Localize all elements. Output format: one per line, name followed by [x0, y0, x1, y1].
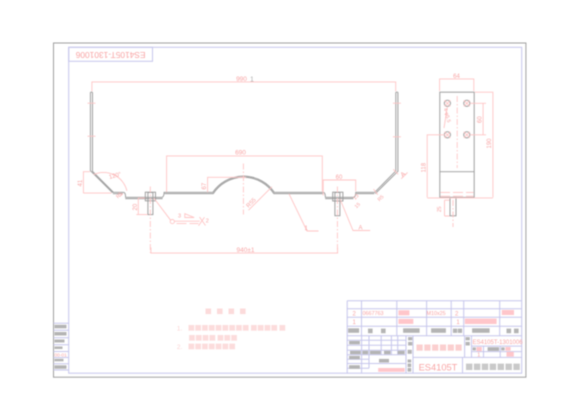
dimension 690: [167, 156, 323, 192]
dimension 60 holes: [470, 103, 486, 135]
side plate mid line: [440, 171, 474, 173]
header label beizhu: [507, 329, 519, 334]
stage mark row: [472, 346, 522, 357]
svg-text:118: 118: [422, 162, 428, 172]
hole bottom-left: [444, 132, 450, 138]
header gray block col5: [431, 328, 446, 333]
mark column small blocks: [408, 337, 413, 372]
header label dai hao: [368, 329, 386, 334]
vertical small text col bottom: [408, 360, 412, 363]
left bend radius tick: [120, 194, 124, 197]
dimension 120 degree arc: [94, 172, 127, 191]
signature column blocks: [349, 341, 360, 369]
svg-text:M10x25: M10x25: [427, 311, 446, 317]
hole top-right: [464, 100, 470, 106]
part outline upper line: [90, 92, 395, 197]
header gray block col1: [348, 328, 359, 333]
dimension 990 top: [92, 82, 396, 91]
hole bottom-left cross: [444, 132, 450, 138]
R55 leader: [249, 187, 272, 210]
dimension 940 bottom: [151, 248, 338, 254]
header gray block col7: [472, 328, 490, 333]
svg-text:60: 60: [478, 116, 484, 123]
side plate: [440, 92, 474, 197]
dimension 64 top: [440, 79, 474, 91]
name cell divider: [465, 336, 472, 358]
svg-text:67: 67: [202, 182, 208, 189]
small col blocks: [466, 337, 470, 345]
left margin table: [54, 323, 69, 370]
scale pink text: [505, 347, 510, 351]
title block upper table grid: [347, 301, 522, 373]
left stud shank: [148, 193, 153, 215]
svg-text:ES4105T-1301006: ES4105T-1301006: [473, 340, 524, 346]
svg-text:690: 690: [235, 150, 246, 157]
svg-text:3: 3: [178, 213, 181, 219]
header gray block col4: [403, 328, 420, 333]
dimension 41 left: [83, 172, 111, 193]
part outline lower line: [93, 92, 398, 194]
row3 pink block: [398, 319, 413, 324]
right upper bend label underline: [401, 172, 407, 178]
hole bottom-right cross: [464, 132, 470, 138]
weld circle: [170, 220, 174, 224]
side hidden line lower: [441, 195, 474, 197]
row2 pink block: [398, 310, 409, 315]
right upper bend tick: [393, 169, 398, 174]
weld tail slash: [199, 217, 206, 226]
revision row gray blocks: [350, 351, 405, 354]
left leg top cap: [90, 91, 92, 93]
bottom extension line: [427, 197, 493, 199]
side hidden line upper: [441, 191, 474, 193]
svg-text:2: 2: [206, 218, 209, 224]
center gray block: [379, 359, 389, 363]
hole top-right cross: [464, 100, 470, 106]
svg-text:940±1: 940±1: [236, 247, 254, 254]
right stud head: [333, 192, 343, 201]
svg-text:00-01: 00-01: [55, 352, 68, 358]
outer frame: [54, 43, 526, 377]
side stud: [450, 197, 456, 215]
notes title (CJK blocks): [206, 309, 246, 315]
right lower bend tick: [374, 189, 378, 195]
company name (CJK blocks): [466, 364, 520, 370]
svg-text:25: 25: [437, 206, 443, 212]
note line 2: [189, 335, 237, 341]
right leg top cap: [396, 91, 398, 93]
centerline left stud: [149, 187, 151, 253]
weld reference line: [174, 220, 199, 222]
right leg hole tick upper: [393, 102, 401, 104]
dimension 20 left stud: [136, 198, 147, 215]
stage pink block: [477, 347, 482, 351]
stage mark cells content: [473, 347, 505, 351]
svg-text:190: 190: [487, 138, 493, 149]
note line 1: [177, 325, 285, 333]
channel floor lower lines: [125, 198, 353, 200]
hole top-left: [444, 100, 450, 106]
side stud centerline: [452, 200, 454, 227]
leader 1: [289, 194, 319, 231]
svg-text:990: 990: [236, 76, 247, 83]
note line 3: [177, 344, 235, 352]
side stud dim: [445, 200, 450, 216]
number underline: [472, 345, 522, 347]
svg-text:ES4105T: ES4105T: [419, 362, 458, 372]
svg-text:20: 20: [133, 203, 139, 210]
svg-text:2.: 2.: [177, 344, 183, 351]
part name cell (CJK blocks): [417, 345, 462, 351]
svg-text:1.: 1.: [177, 326, 183, 333]
svg-text:A: A: [359, 226, 363, 232]
dimension 60 right stud: [323, 180, 356, 196]
stage value pink block: [507, 352, 514, 357]
centerline right stud: [336, 187, 338, 253]
svg-text:ES4105T-1301006: ES4105T-1301006: [75, 50, 145, 60]
left stud head: [145, 192, 155, 201]
left leg hole tick upper: [88, 102, 96, 104]
svg-text:64: 64: [453, 74, 460, 80]
row2 right pink block: [502, 310, 514, 315]
svg-text:60: 60: [336, 175, 343, 181]
dimension 118: [427, 135, 445, 198]
header label shuliang: [453, 329, 462, 333]
side vertical centerline: [456, 96, 458, 168]
weld fillet triangle: [185, 214, 194, 218]
dimension 67 hump: [208, 177, 246, 192]
bottom row divider: [413, 357, 522, 373]
svg-text:1: 1: [250, 77, 254, 84]
hole bottom-right: [464, 132, 470, 138]
dimension 190: [475, 92, 493, 197]
part number label box top-left: [69, 47, 153, 61]
hole top-left cross: [444, 100, 450, 106]
row3 right pink block: [465, 319, 497, 324]
inner frame: [69, 47, 522, 373]
holes callout leader: [444, 107, 447, 129]
left leg hole tick lower: [88, 135, 96, 137]
right stud shank: [335, 193, 340, 216]
lower-left revision grid: [347, 336, 413, 374]
margin blocks: [55, 325, 67, 369]
right leg hole tick lower: [393, 136, 401, 138]
weld dashed identification line: [177, 223, 199, 225]
bottom pink block: [378, 368, 405, 372]
centerline hump: [242, 164, 244, 215]
svg-text:41: 41: [78, 179, 84, 186]
weld leader: [154, 198, 171, 220]
svg-text:0667763: 0667763: [363, 311, 384, 317]
A leader: [340, 199, 370, 231]
